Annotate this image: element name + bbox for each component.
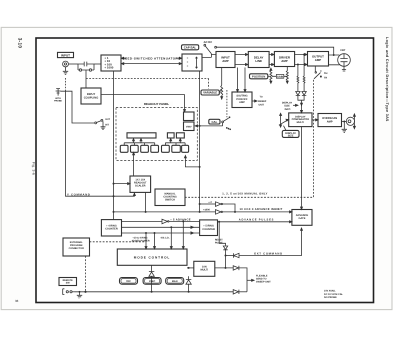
svg-text:CAL: CAL [211, 120, 217, 124]
svg-text:1, 2, 5 or/10X MANUAL ONLY: 1, 2, 5 or/10X MANUAL ONLY [222, 193, 267, 196]
wire / arrows REED-SWITCHED ATTENUATORS [121, 57, 182, 59]
divide by 2 buffer [200, 202, 235, 212]
diode D5 (multi output) [233, 266, 247, 292]
wires driver amp to output amp [295, 54, 308, 66]
wires input amp to trig pickoff [237, 68, 247, 92]
svg-text:CRT: CRT [340, 49, 346, 52]
remote command line [75, 291, 234, 293]
wire comparator to advance gate [301, 127, 303, 210]
readout lamp box A [184, 112, 195, 121]
svg-text:CH: CH [324, 72, 328, 75]
input coupling [81, 88, 101, 104]
svg-text:÷ 1000: ÷ 1000 [105, 66, 114, 70]
advance gate [292, 210, 312, 226]
position pot R1 [270, 68, 272, 83]
diagram border frame [36, 38, 374, 303]
cal switch [195, 117, 231, 130]
svg-text:MULTI: MULTI [297, 121, 305, 124]
dashed wire ext program to mode control [90, 241, 147, 243]
Y command vertical wire [66, 78, 136, 196]
ring counter B (divide by 4) [101, 220, 121, 236]
wires input amp to delay line [235, 54, 248, 66]
svg-text:MAN: MAN [172, 280, 178, 283]
svg-text:POSITION: POSITION [252, 74, 265, 78]
input connector J1 [63, 61, 78, 67]
svg-text:SCALER: SCALER [135, 185, 146, 188]
dashed link variable to cal switch [226, 90, 228, 117]
svg-text:COUNTER: COUNTER [105, 228, 118, 231]
svg-text:3-10: 3-10 [18, 38, 23, 49]
svg-text:4 B.C.D.: 4 B.C.D. [160, 237, 169, 240]
texts for top row [61, 41, 346, 70]
svg-text:÷1000: ÷1000 [203, 209, 210, 212]
divide by 5 advance buffer [162, 219, 200, 224]
wire to int/ext switch [61, 91, 95, 123]
svg-text:REED-SWITCHED ATTENUATORS: REED-SWITCHED ATTENUATORS [123, 56, 181, 60]
variable gain control [201, 68, 223, 100]
wire attenuator A2 down (readout drive) [199, 71, 200, 212]
remote connector plug [63, 289, 75, 295]
trig pickoff amp [232, 92, 252, 108]
readout neon buttons left group [120, 145, 158, 152]
svg-text:Y COMMAND: Y COMMAND [67, 192, 91, 196]
overscan amp [318, 114, 342, 127]
display size pot [279, 113, 289, 130]
svg-text:÷ 5 ADVANCE: ÷ 5 ADVANCE [170, 218, 191, 221]
display size info arrow [293, 104, 298, 106]
probe power connector [56, 89, 61, 96]
ground (overscan) [342, 121, 347, 132]
readout scaler 1X/10X [130, 176, 151, 192]
GAIN control label [272, 74, 287, 78]
svg-text:INFO: INFO [285, 108, 291, 111]
svg-text:VARIABLE: VARIABLE [203, 91, 217, 95]
wire neon to readout scaler [133, 152, 135, 176]
wire attenuator A1 to ring counter (signal) [113, 71, 114, 220]
svg-text:AMP: AMP [327, 120, 333, 123]
mode control [117, 249, 187, 265]
diode D4 (ext command) [225, 253, 239, 257]
wire attenuator A1 to A2 [121, 63, 182, 65]
svg-text:NO PROBE: NO PROBE [324, 296, 337, 299]
svg-text:·AC DC: ·AC DC [203, 41, 212, 44]
mode control input diode D7 [149, 265, 154, 292]
display comparator multi [289, 113, 312, 127]
wires output amp to CRT plates [329, 54, 340, 64]
display pickoff resistor R4 [303, 54, 305, 92]
wire scaler to inhibit line [145, 192, 146, 212]
wire mode control to 10N multi [187, 267, 194, 268]
mode diode D8 (right) [186, 276, 191, 292]
svg-text:PULSE: PULSE [215, 242, 223, 245]
svg-text:Fig. 3-6: Fig. 3-6 [32, 162, 36, 175]
attenuator A1 (reed switched) [101, 55, 121, 71]
wires delay line to driver amp [269, 54, 274, 66]
readout small box B [167, 133, 174, 138]
compensated divider network [78, 62, 101, 72]
10N multi [194, 261, 215, 276]
input amp V1 [216, 52, 235, 68]
svg-text:ADVANCE PULSES: ADVANCE PULSES [239, 219, 275, 222]
external program connector [63, 238, 90, 256]
wire readout drive to neon (elbow) [184, 152, 199, 167]
svg-text:V/MV: V/MV [186, 126, 192, 129]
wire comparator to overscan amp [312, 119, 318, 121]
wire feedback line to CRT plate [217, 47, 334, 55]
POSITION control label [250, 74, 270, 79]
svg-text:UNIT: UNIT [259, 103, 265, 106]
svg-text:SWITCH: SWITCH [165, 199, 175, 202]
svg-text:INPUT: INPUT [61, 53, 70, 57]
diode D6 (bottom) [233, 290, 247, 294]
overscan output connector [342, 114, 356, 129]
int/ext switch [95, 119, 106, 129]
advance inhibit line [114, 211, 292, 213]
ring counter A (divide by 5) [200, 220, 218, 236]
wire ring B to divide-by-5 buffer [122, 220, 162, 222]
svg-text:SIZE: SIZE [288, 135, 294, 138]
svg-text:INT: INT [105, 123, 109, 126]
svg-text:Logic and Circuit Description—: Logic and Circuit Description—Type 3A5 [385, 37, 389, 122]
svg-text:MODE CONTROL: MODE CONTROL [134, 255, 171, 259]
reset pulse wire and diode D3 [219, 222, 228, 256]
readout neon buttons right group [162, 145, 189, 152]
svg-text:TR: TR [324, 77, 327, 80]
svg-text:CONNECTOR: CONNECTOR [69, 247, 85, 250]
display pickoff diode D1 [296, 92, 300, 96]
attenuator A2 (reed switched) [182, 54, 202, 71]
svg-text:AMP: AMP [315, 58, 321, 62]
wires counters to mode control [145, 221, 184, 249]
svg-text:READOUT PANEL: READOUT PANEL [144, 102, 169, 106]
wire signal to scaler [114, 183, 131, 185]
remote switch box [59, 278, 77, 286]
delay line DL1 [248, 52, 269, 68]
trace mode switch (CH/TR) [314, 66, 322, 79]
readout display window [127, 133, 156, 138]
svg-text:CAP BAL: CAP BAL [184, 46, 197, 50]
divide by 1000 buffer [216, 210, 223, 215]
advance pulses line [218, 221, 292, 223]
svg-text:LINE: LINE [255, 59, 262, 63]
arrow to sweep unit (flexible) [247, 279, 254, 281]
ground (remote line) [77, 291, 82, 298]
1SEC pushbutton [143, 278, 161, 285]
wire junction down to multi line [225, 256, 226, 269]
ground (input) [63, 67, 68, 74]
svg-text:GAIN: GAIN [277, 75, 284, 78]
INPUT connector label [58, 52, 74, 57]
DISPLAY SIZE label [282, 130, 299, 137]
svg-text:EXT COMMAND: EXT COMMAND [254, 252, 283, 256]
wires neon tree left [124, 139, 155, 146]
svg-text:AMP: AMP [222, 59, 228, 63]
svg-text:1SEC: 1SEC [149, 280, 156, 283]
wire divider to input coupling [85, 70, 87, 88]
gain pot R2 [286, 67, 288, 84]
wire ring B output 3 [122, 232, 200, 234]
svg-text:OFF: OFF [126, 280, 131, 283]
readout V/MV box [184, 122, 195, 131]
svg-text:COUNTER: COUNTER [202, 228, 215, 231]
output amp V3 [308, 52, 329, 67]
svg-text:AMP: AMP [281, 59, 287, 63]
wire diodes to display comparator [298, 95, 304, 112]
wire ring B output 2 [122, 226, 200, 228]
wires neon tree right [165, 139, 185, 146]
svg-text:38: 38 [15, 299, 19, 303]
CRT [338, 54, 351, 71]
svg-text:AMP: AMP [239, 101, 245, 104]
gang (dashed mechanical link) volts/div [86, 79, 209, 89]
svg-text:PROBE: PROBE [54, 100, 62, 103]
AC/DC input switch [202, 44, 217, 57]
readout panel (dashed) [116, 108, 197, 161]
ext command wire from advance gate [239, 228, 302, 256]
manual counting switch [155, 189, 185, 206]
dashed wire ext program to remote line [85, 256, 86, 292]
wire input coupling to readout lamp [101, 95, 186, 112]
svg-text:COUPLING: COUPLING [84, 95, 99, 99]
OFF pushbutton [120, 278, 138, 285]
svg-text:SWEEP UNIT: SWEEP UNIT [256, 280, 271, 283]
CAL label [209, 119, 220, 124]
CAP BAL label [182, 45, 199, 50]
svg-text:MULTI: MULTI [201, 269, 209, 272]
wire 10N multi output [215, 267, 233, 269]
svg-text:10 X/10 X ADVANCE INHIBIT: 10 X/10 X ADVANCE INHIBIT [239, 208, 282, 211]
readout small box C [176, 133, 184, 138]
driver amp V2 [274, 52, 294, 67]
display pickoff diode D2 [302, 92, 306, 96]
dashed wire trace switch to manual line [185, 80, 313, 198]
wire trig pickoff to sweep unit [252, 100, 257, 102]
display pickoff resistor R3 [297, 64, 299, 92]
svg-text:SWEEP: SWEEP [258, 100, 267, 103]
MAN pushbutton [166, 278, 184, 285]
svg-text:GATE: GATE [299, 217, 306, 220]
svg-text:TO: TO [260, 96, 263, 99]
svg-text:EXT: EXT [106, 118, 111, 121]
